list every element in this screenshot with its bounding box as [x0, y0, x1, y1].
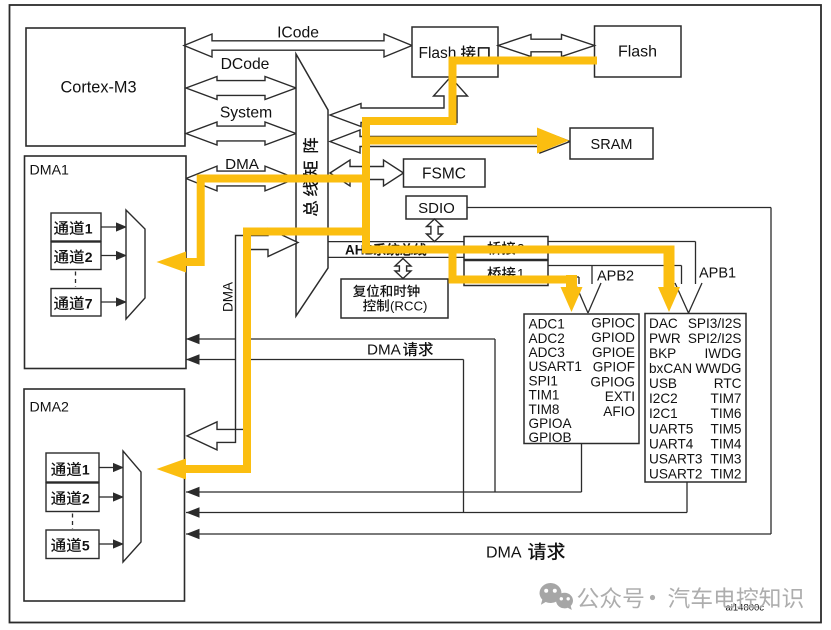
bus arrow Flash-interface to Flash: [498, 35, 595, 57]
bus arrow SDIO to AHB bus: [427, 219, 443, 242]
svg-text:SRAM: SRAM: [591, 137, 633, 153]
svg-text:ICode: ICode: [277, 25, 319, 42]
svg-text:RTC: RTC: [714, 376, 742, 391]
bus arrow AHB to RCC: [395, 259, 411, 279]
svg-text:WWDG: WWDG: [695, 361, 741, 376]
svg-text:GPIOD: GPIOD: [591, 330, 635, 345]
svg-text:1: 1: [85, 220, 93, 236]
svg-text:GPIOG: GPIOG: [590, 374, 635, 389]
block Cortex-M3: [26, 28, 185, 146]
block DMA2 channel 5 (通道5): [46, 530, 99, 559]
svg-text:GPIOA: GPIOA: [529, 416, 573, 431]
dashed line DMA2 channels ellipsis: [72, 514, 74, 530]
wire DMA2 channel5 to mux: [99, 543, 115, 545]
block DMA1 channel 2 (通道2): [51, 242, 101, 270]
bus arrow bus-matrix to FSMC: [330, 160, 404, 186]
svg-text:I2C2: I2C2: [649, 391, 678, 406]
wire AHB system bus lower line: [328, 256, 464, 258]
svg-text:USB: USB: [649, 376, 677, 391]
svg-text:UART5: UART5: [649, 421, 693, 436]
highlight DAC arrow shaft (yellow): [664, 246, 675, 290]
dashed line DMA1 channels ellipsis: [75, 272, 77, 288]
wire DMA2 channel2 to mux: [99, 496, 115, 498]
block bridge1 (桥接1): [464, 261, 548, 286]
svg-text:DMA: DMA: [486, 545, 522, 562]
svg-text:Flash: Flash: [618, 44, 657, 61]
svg-text:Cortex-M3: Cortex-M3: [61, 79, 137, 97]
svg-text:System: System: [220, 105, 272, 122]
block DMA2 controller: [24, 389, 185, 601]
svg-text:SDIO: SDIO: [418, 200, 455, 217]
block DMA2 channel 2 (通道2): [46, 483, 99, 512]
svg-text:1: 1: [82, 462, 90, 478]
svg-text:TIM4: TIM4: [711, 436, 742, 451]
wire DMA1 channel1 to mux: [101, 226, 118, 228]
svg-text:DMA: DMA: [221, 282, 236, 312]
svg-text:USART1: USART1: [529, 359, 582, 374]
svg-text:GPIOE: GPIOE: [592, 345, 635, 360]
bus arrow ICode: [184, 34, 412, 57]
block SRAM: [570, 128, 653, 159]
wire DMA request from APB1 peripherals: [686, 482, 688, 513]
mux trapezoid DMA2: [123, 451, 141, 562]
block DMA1 channel 1 (通道1): [51, 213, 101, 241]
block Flash memory: [595, 26, 682, 77]
svg-text:DCode: DCode: [221, 56, 270, 73]
block FSMC: [404, 159, 486, 187]
wire bridge1 to APB2 funnel left: [548, 276, 579, 278]
wire DMA request from APB2 peripherals: [581, 444, 583, 493]
watermark text 汽车电控知识: [668, 587, 803, 608]
svg-text:ADC2: ADC2: [529, 331, 565, 346]
highlight ADC1 arrowhead (yellow): [561, 287, 583, 312]
svg-text:USART3: USART3: [649, 451, 702, 466]
watermark middot: [650, 595, 655, 600]
wire DMA1 channel7 to mux: [101, 301, 118, 303]
svg-text:TIM5: TIM5: [711, 421, 742, 436]
block DMA1 controller: [25, 156, 187, 369]
watermark text 公众号: [578, 587, 644, 608]
svg-text:bxCAN: bxCAN: [649, 361, 692, 376]
svg-text:PWR: PWR: [649, 331, 681, 346]
highlight DMA1 arrowhead (yellow): [157, 252, 187, 273]
highlight path to SRAM (yellow): [362, 137, 539, 145]
wire branch to APB2 funnel right: [591, 266, 593, 285]
bus arrow DMA (DMA1 to bus matrix): [186, 166, 296, 191]
svg-text:DMA: DMA: [225, 156, 260, 173]
svg-text:GPIOF: GPIOF: [593, 360, 635, 375]
svg-text:DMA2: DMA2: [30, 400, 70, 416]
block bridge2 (桥接2): [464, 237, 548, 260]
svg-text:SPI1: SPI1: [529, 373, 558, 388]
svg-text:DMA1: DMA1: [30, 163, 70, 179]
highlight path to DMA2 (yellow): [186, 232, 370, 470]
funnel APB1: [675, 283, 689, 313]
bus matrix polygon (总线矩阵): [296, 54, 328, 316]
highlight DMA2 arrowhead (yellow): [157, 459, 187, 480]
wire DMA2 channel1 to mux: [99, 467, 115, 469]
bus arrow bus-matrix to SRAM: [330, 130, 570, 153]
bus arrow System: [186, 122, 296, 145]
svg-text:SPI2/I2S: SPI2/I2S: [688, 331, 742, 346]
svg-text:EXTI: EXTI: [605, 389, 635, 404]
bent bus arrow DMA2 to bus-matrix: [187, 229, 298, 450]
wire bridge1 to APB1 funnel: [548, 265, 682, 267]
watermark wechat icon: [540, 583, 574, 610]
block DMA1 channel 7 (通道7): [51, 289, 101, 317]
wire SDIO DMA request loop: [467, 207, 771, 209]
svg-text:IWDG: IWDG: [705, 346, 742, 361]
highlight SRAM arrowhead (yellow): [537, 128, 569, 154]
block reset and clock control RCC (复位和时钟控制): [341, 279, 448, 318]
highlight path to DMA1 (yellow): [186, 179, 370, 263]
svg-text:TIM1: TIM1: [529, 388, 560, 403]
highlight branch AHB to APB2 bridge (yellow): [453, 250, 572, 280]
funnel APB2: [575, 283, 588, 313]
wire bridge2 to APB1 funnel: [548, 241, 696, 243]
block SDIO: [406, 196, 467, 219]
block DMA2 channel 1 (通道1): [46, 453, 99, 482]
svg-text:TIM7: TIM7: [711, 391, 742, 406]
svg-text:2: 2: [85, 249, 93, 265]
block Flash interface (Flash 接口): [412, 27, 498, 77]
svg-text:DAC: DAC: [649, 316, 678, 331]
wire branch APB2 requests to DMA1: [494, 339, 496, 492]
svg-text:APB1: APB1: [699, 266, 736, 282]
svg-text:2: 2: [82, 491, 90, 507]
svg-text:USART2: USART2: [649, 466, 702, 481]
bent bus arrow bus-matrix to Flash-interface: [330, 77, 468, 127]
svg-text:TIM2: TIM2: [711, 466, 742, 481]
wire AHB system bus upper line: [328, 241, 464, 243]
highlight DAC arrowhead (yellow): [658, 287, 680, 312]
label bus matrix vertical text 总线矩阵: [303, 138, 318, 153]
wire DMA1 channel2 to mux: [101, 255, 118, 257]
highlight path Flash via bus matrix to AHB (yellow): [366, 61, 669, 250]
svg-text:7: 7: [85, 296, 93, 312]
svg-text:ai14800c: ai14800c: [726, 603, 765, 614]
svg-text:UART4: UART4: [649, 436, 694, 451]
svg-text:GPIOB: GPIOB: [529, 430, 572, 445]
wire branch APB1 requests to DMA1: [463, 360, 465, 513]
svg-text:5: 5: [82, 538, 90, 554]
svg-text:(RCC): (RCC): [390, 298, 427, 313]
block APB2 peripherals: [524, 314, 639, 444]
svg-text:FSMC: FSMC: [422, 166, 466, 183]
svg-text:APB2: APB2: [597, 269, 634, 285]
svg-text:TIM6: TIM6: [711, 406, 742, 421]
svg-text:TIM3: TIM3: [711, 451, 742, 466]
svg-text:ADC1: ADC1: [529, 317, 565, 332]
mux trapezoid DMA1: [126, 210, 145, 319]
svg-text:TIM8: TIM8: [529, 402, 560, 417]
svg-text:DMA: DMA: [367, 342, 402, 359]
svg-text:BKP: BKP: [649, 346, 676, 361]
svg-text:AFIO: AFIO: [603, 404, 635, 419]
highlight ADC1 arrow shaft (yellow): [566, 275, 577, 289]
svg-text:ADC3: ADC3: [529, 345, 565, 360]
block APB1 peripherals: [645, 314, 746, 483]
bus arrow DCode: [186, 77, 296, 100]
svg-text:I2C1: I2C1: [649, 406, 678, 421]
svg-text:GPIOC: GPIOC: [591, 315, 635, 330]
svg-text:SPI3/I2S: SPI3/I2S: [688, 316, 742, 331]
